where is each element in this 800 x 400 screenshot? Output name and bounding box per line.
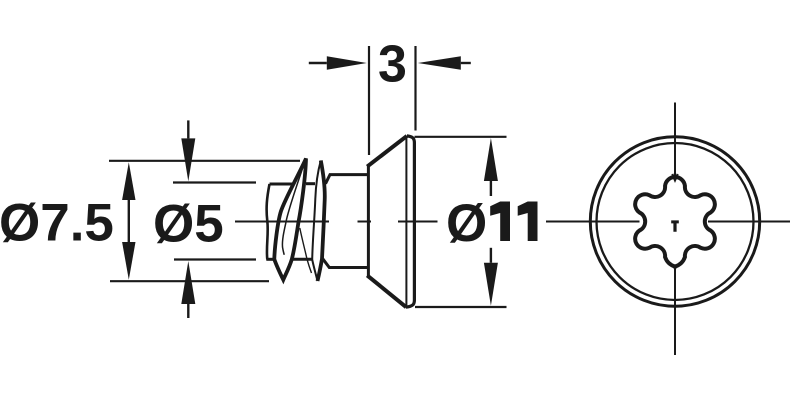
thread leaf B <box>312 161 325 282</box>
thread root helix line 1 <box>300 228 312 273</box>
break line left end <box>267 184 270 259</box>
svg-text:Ø: Ø <box>446 194 487 253</box>
thread leaf A inner line <box>282 164 304 255</box>
dimension Ø11 extension line bottom <box>415 306 507 308</box>
core bottom edge <box>266 258 313 261</box>
dimension Ø11 extension line top <box>415 136 507 138</box>
head cone top slope <box>367 136 407 167</box>
dimension Ø5 arrow bottom <box>181 261 195 318</box>
dimension Ø7.5 arrow line <box>122 162 135 280</box>
collar top edge with step <box>326 175 369 184</box>
collar bottom edge with step <box>322 258 368 267</box>
dimension 3 extension line left <box>368 46 370 155</box>
thread leaf A <box>274 159 306 280</box>
svg-text:Ø5: Ø5 <box>153 195 224 254</box>
core top edge <box>270 182 316 185</box>
dimension 3 arrow left <box>309 56 367 70</box>
svg-text:3: 3 <box>378 36 407 94</box>
dimension Ø7.5 extension line top <box>109 160 300 162</box>
dimension 3 arrow right <box>418 56 471 70</box>
head cone bottom slope <box>367 275 406 307</box>
head face right outline <box>406 136 415 307</box>
torx star bottom nub <box>672 265 678 272</box>
dimension Ø11 arrow top <box>484 138 498 196</box>
torx star top notch <box>672 174 677 180</box>
dimension Ø5 arrow top <box>181 120 195 181</box>
svg-text:Ø7.5: Ø7.5 <box>0 194 114 253</box>
head face left line <box>405 138 407 306</box>
centerline screw axis <box>235 221 438 223</box>
front view centerline vertical <box>674 103 676 356</box>
dimension Ø7.5 extension line bottom <box>110 280 269 282</box>
head outer circle <box>590 137 759 306</box>
head cone left edge <box>367 166 370 277</box>
front view centerline horizontal <box>546 221 790 223</box>
dimension 3 extension line right <box>414 46 416 131</box>
dimension Ø11 arrow bottom <box>484 248 498 306</box>
dimension Ø5 extension line bottom <box>174 258 256 260</box>
label T center mark <box>671 220 679 231</box>
torx recess star <box>635 177 715 266</box>
dimension Ø5 extension line top <box>173 181 256 183</box>
head chamfer inner circle <box>597 143 754 300</box>
